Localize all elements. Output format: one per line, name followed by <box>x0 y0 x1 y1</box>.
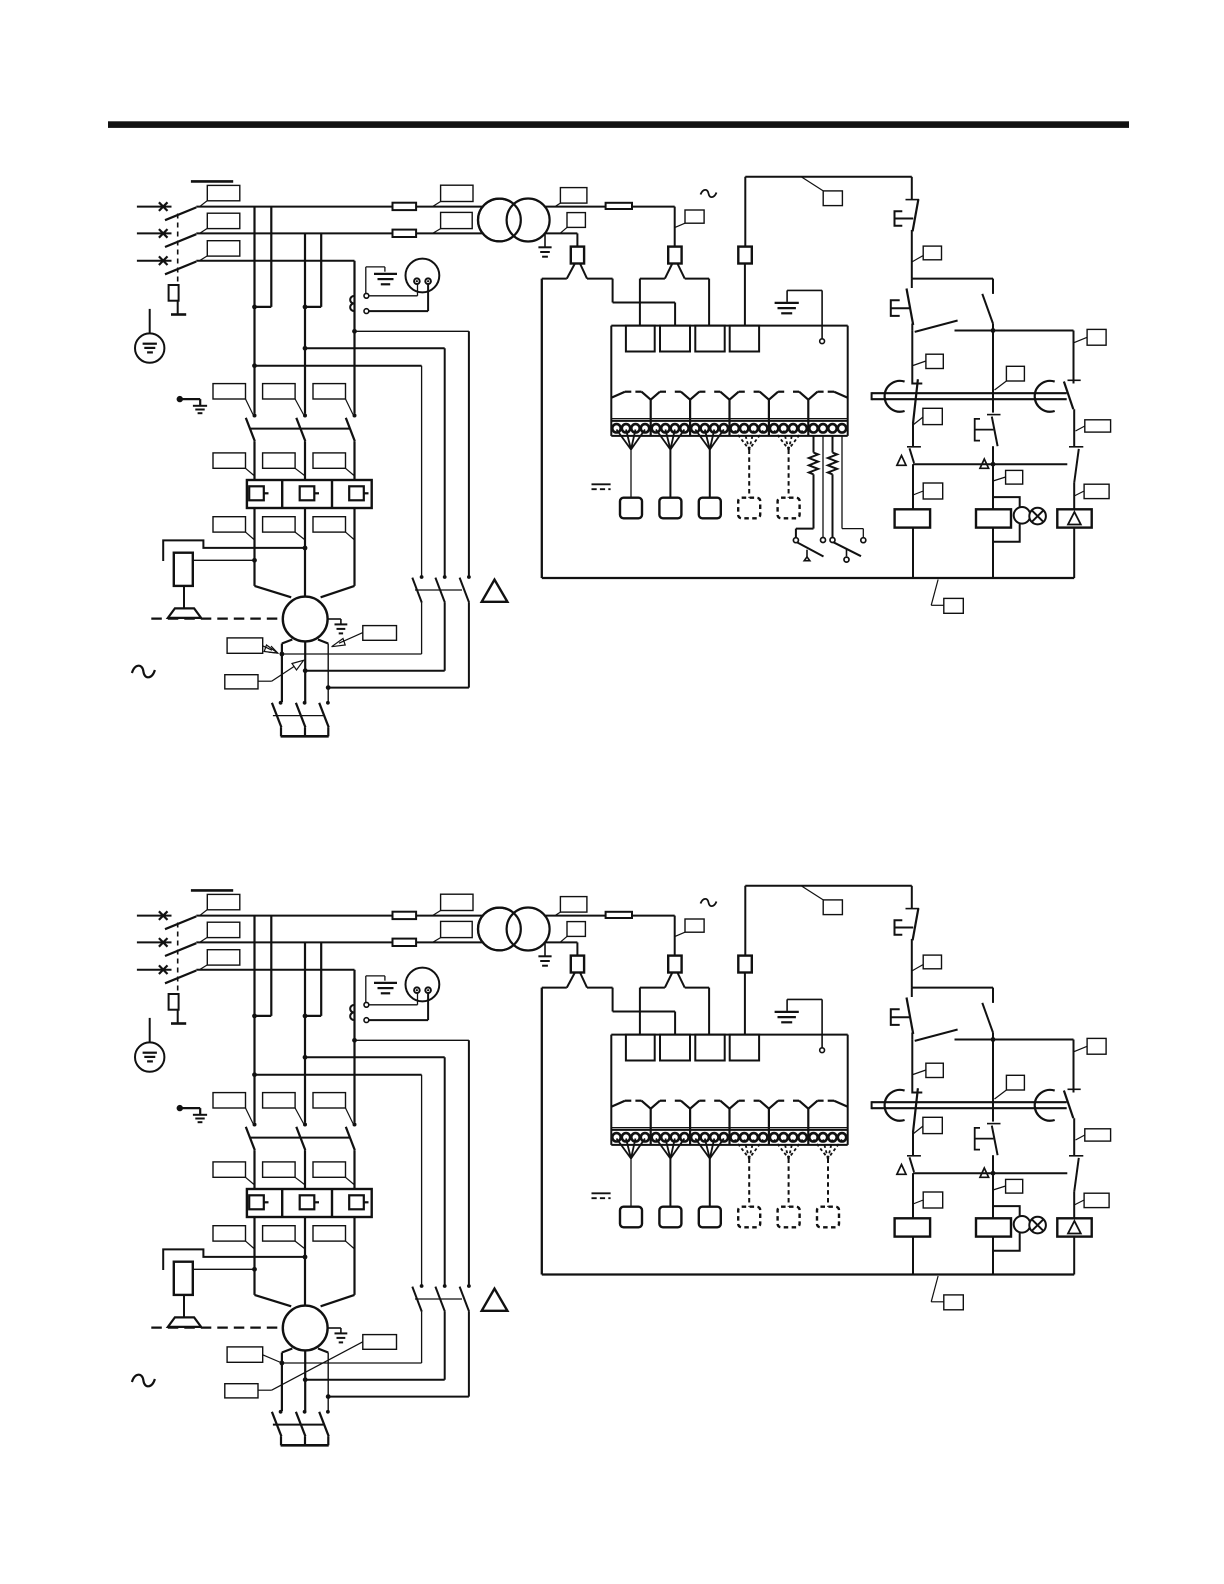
plug box (solid) <box>620 1207 642 1228</box>
wires overload to motor <box>253 508 255 586</box>
mechanical link dashed to motor <box>151 617 282 619</box>
motor terminal collar <box>282 1349 292 1353</box>
transformer earth <box>544 233 546 247</box>
group fan-out wires to plugs <box>617 430 632 450</box>
coil K3 with triangle <box>1057 1218 1091 1236</box>
wire X1 right leg <box>587 987 613 989</box>
coil K3 with triangle <box>1057 509 1091 527</box>
label box left column above linkage <box>926 1063 943 1077</box>
phase C drop wire <box>353 261 355 332</box>
label box on control drop <box>923 955 941 969</box>
dc symbol <box>592 483 611 485</box>
wire CT terminal 1 to plug <box>369 295 418 297</box>
phase C drop wire <box>353 970 355 1041</box>
terminal strip <box>611 1127 847 1129</box>
e-stop contact 2 <box>911 279 913 288</box>
contact before bus 2 <box>907 446 921 448</box>
CT terminals <box>364 1002 369 1007</box>
fuse F1 <box>393 203 417 210</box>
row2 label boxes <box>213 1162 246 1177</box>
wire-harness funnels with dashed tops <box>611 1101 625 1107</box>
label L1 with arrow <box>227 638 263 653</box>
protective earth electrode <box>149 309 151 344</box>
wire X1 left leg to return bus <box>542 987 567 989</box>
overload relay F4 <box>247 1189 372 1217</box>
plug pins <box>414 278 420 284</box>
row3 label boxes <box>213 1226 246 1241</box>
ac tilde symbol <box>701 190 717 197</box>
label box coil K1 <box>923 1192 943 1208</box>
resistor R2 <box>832 436 834 453</box>
cable connector X2 <box>668 247 681 264</box>
label box right of transformer <box>560 188 587 204</box>
PE junction dot with earth <box>177 1105 183 1111</box>
contactor main contacts <box>253 1123 257 1127</box>
plug box (dashed) <box>738 498 760 519</box>
three-phase input lines L1 L2 L3 <box>137 206 172 208</box>
motor earth <box>328 1327 341 1329</box>
wire CT terminal 2 to plug <box>369 1019 428 1021</box>
ac tilde symbol left <box>132 666 155 678</box>
terminal screws <box>612 1133 620 1141</box>
coil K1 <box>912 464 914 509</box>
label box right lower <box>1084 1193 1109 1207</box>
label box right mid <box>1085 1129 1111 1141</box>
compartment squares under box top <box>626 326 655 352</box>
wires to overload relay <box>253 1150 255 1189</box>
label box right top <box>1087 329 1106 345</box>
bar above label box <box>191 889 233 892</box>
wire 2 thin <box>822 436 824 538</box>
wire F2 to transformer <box>416 941 483 943</box>
motor terminal collar <box>282 640 292 644</box>
fuse F1 <box>393 912 417 919</box>
mid column contact below linkage <box>987 414 1001 416</box>
right column contact through linkage <box>1068 1088 1081 1090</box>
control bus 2 <box>913 1172 1067 1174</box>
transformer T1 <box>478 908 521 951</box>
cable connector X1 <box>571 247 584 264</box>
warning triangle small 1 <box>897 456 906 466</box>
label box on top wire <box>801 886 823 900</box>
lamp branch loop <box>993 1206 1020 1251</box>
isolator bottom bar <box>281 735 329 738</box>
e-stop contact 1 <box>906 908 920 910</box>
warning triangle small 1 <box>897 1165 906 1175</box>
contact before bus 2 <box>907 1155 921 1157</box>
wire X1 right leg <box>587 278 613 280</box>
motor earth <box>328 618 341 620</box>
earth for measuring circuit <box>365 267 367 293</box>
switch S2 contact <box>830 538 835 543</box>
knife switch blade <box>911 1033 913 1040</box>
measuring plug <box>406 968 440 1002</box>
motor terminal links to bypass <box>280 1361 285 1366</box>
phase risers to contactor <box>253 1016 255 1123</box>
label box above fuse F2 <box>441 921 473 937</box>
label box above fuse F1 <box>441 894 473 910</box>
group6 dashed fan-out to dashed plug <box>814 1140 829 1159</box>
striker fuse box on linkage <box>169 285 179 301</box>
pressure switch foot <box>183 586 185 608</box>
cable connector X1 <box>571 956 584 973</box>
plug box (solid) <box>659 498 681 519</box>
label box below bus <box>931 580 938 606</box>
pressure switch bracket <box>163 1249 305 1270</box>
pressure switch body <box>174 553 193 586</box>
knife switch blade <box>911 324 913 331</box>
top wire to control circuit <box>745 885 912 887</box>
warning triangle <box>482 580 508 602</box>
branch wire to middle column <box>912 278 993 280</box>
indicator lamp circle <box>1014 1216 1031 1233</box>
control wire drop <box>911 886 913 909</box>
pressure switch body <box>174 1262 193 1295</box>
warning triangle small 2 <box>980 1168 989 1177</box>
label box above coil K2 <box>1006 470 1023 484</box>
three-phase input lines L1 L2 L3 <box>137 915 172 917</box>
wire X2 left leg <box>640 278 665 280</box>
control bus 2 <box>913 463 1067 465</box>
plug box (solid) <box>659 1207 681 1228</box>
wire X1 left leg to return bus <box>542 278 567 280</box>
phase L1 wire to fuse F1 <box>196 915 392 917</box>
transformer lower secondary wire <box>545 941 578 943</box>
label box near connector X2 <box>685 919 704 932</box>
plug box (solid) <box>699 498 721 519</box>
transformer secondary wire with fuse F3 <box>545 206 606 208</box>
coil K2 <box>976 1218 1011 1236</box>
warning triangle <box>482 1289 508 1311</box>
motor isolator contacts <box>279 701 283 705</box>
middle column stub and contact <box>992 988 994 1003</box>
label L2 with arrow <box>363 626 397 641</box>
label L3 leader <box>225 1384 258 1398</box>
cable connector X3 <box>744 886 746 956</box>
warning triangle small 2 <box>980 459 989 468</box>
indicator lamp crossed <box>1029 508 1046 525</box>
group fan-out wires to plugs <box>617 1139 632 1159</box>
lamp branch loop <box>993 497 1020 542</box>
label box below linkage <box>923 1117 942 1133</box>
label L1 plain leader <box>227 1347 263 1362</box>
linkage arc right <box>1035 1090 1055 1121</box>
label box on control drop <box>923 246 941 260</box>
phase A drop wires <box>253 916 255 1016</box>
row2 label boxes <box>213 453 246 468</box>
right column wire <box>1073 331 1075 384</box>
fuse-marks X on input lines <box>159 202 168 211</box>
phase L2 wire to fuse F2 <box>196 232 392 234</box>
header rule <box>108 121 1129 128</box>
label box mid column <box>1006 366 1024 381</box>
CT terminals <box>364 293 369 298</box>
e-stop contact 2 <box>911 988 913 997</box>
transformer earth <box>544 942 546 956</box>
indicator lamp circle <box>1014 507 1031 524</box>
transformer T1 <box>478 199 521 242</box>
label L2 long leader <box>363 1335 397 1350</box>
wire-harness funnels with dashed tops <box>611 392 625 398</box>
label box mid column <box>1006 1075 1024 1090</box>
switch S1 contact <box>793 538 798 543</box>
phase L3 wire <box>196 969 354 971</box>
left column contact through linkage <box>912 383 922 385</box>
earth terminal inside enclosure <box>821 999 823 1047</box>
plug pins <box>414 987 420 993</box>
wire X2 right leg <box>685 987 709 989</box>
plug box (solid) <box>620 498 642 519</box>
disconnect switch Q1 blades <box>165 916 196 929</box>
plug box (dashed) <box>738 1207 760 1228</box>
wires overload to motor <box>253 1217 255 1295</box>
wire F1 to transformer <box>416 206 483 208</box>
transformer secondary wire with fuse F3 <box>545 915 606 917</box>
cable connector X3 <box>744 177 746 247</box>
pressure switch foot <box>183 1295 185 1317</box>
label box right mid <box>1085 420 1111 432</box>
wires to overload relay <box>253 441 255 480</box>
ac tilde symbol left <box>132 1375 155 1387</box>
label box on secondary drop <box>567 922 585 937</box>
mechanical linkage double line <box>872 1101 1067 1103</box>
terminal box outline <box>611 1034 847 1036</box>
terminal box outline <box>611 325 847 327</box>
label box above fuse F2 <box>441 212 473 228</box>
terminal strip <box>611 418 847 420</box>
bypass riser wires <box>468 1040 470 1284</box>
label boxes for disconnect poles <box>207 894 240 909</box>
return bus <box>541 988 543 1275</box>
compartment squares under box top <box>626 1035 655 1061</box>
phase L1 wire to fuse F1 <box>196 206 392 208</box>
transformer lower secondary wire <box>545 232 578 234</box>
linkage arc left <box>885 381 905 412</box>
wire CT terminal 2 to plug <box>369 310 428 312</box>
disconnect mechanical linkage (dashed) <box>177 214 179 285</box>
protective earth electrode <box>149 1018 151 1053</box>
terminal screws <box>612 424 620 432</box>
label box below bus <box>931 1276 938 1302</box>
bar above label box <box>191 180 233 183</box>
control bus 1 <box>955 1039 1074 1041</box>
mechanical linkage double line <box>872 392 1067 394</box>
isolator bottom bar <box>281 1444 329 1447</box>
earth terminal inside enclosure <box>821 290 823 338</box>
bypass switch contacts <box>420 1284 424 1288</box>
linkage arc right <box>1035 381 1055 412</box>
phase A drop wires <box>253 207 255 307</box>
label box on top wire <box>801 177 823 191</box>
tap junctions to bypass switch <box>352 329 357 334</box>
label box right lower <box>1084 484 1109 498</box>
return bus <box>541 279 543 578</box>
dc symbol <box>592 1192 611 1194</box>
phase risers to contactor <box>253 307 255 414</box>
indicator lamp crossed <box>1029 1217 1046 1234</box>
label boxes for disconnect poles <box>207 185 240 200</box>
top wire to control circuit <box>745 176 912 178</box>
bypass switch contacts <box>420 575 424 579</box>
PE junction dot with earth <box>177 396 183 402</box>
label box above fuse F1 <box>441 185 473 201</box>
earth for measuring circuit <box>365 976 367 1002</box>
fuse F3 <box>606 912 632 918</box>
label box on secondary drop <box>567 213 585 228</box>
label L3 with arrow <box>225 675 258 689</box>
pushbutton actuator mid <box>975 419 994 441</box>
coil K1 <box>912 1173 914 1218</box>
wire F2 to transformer <box>416 232 483 234</box>
mid column contact below linkage <box>987 1123 1001 1125</box>
motor terminal links to bypass <box>280 652 285 657</box>
wire 4 thin <box>841 436 843 529</box>
striker fuse box on linkage <box>169 994 179 1010</box>
motor M1 <box>283 1306 328 1351</box>
motor M1 <box>283 597 328 642</box>
middle column stub and contact <box>992 279 994 294</box>
fuse F3 <box>606 203 632 209</box>
control wire drop <box>911 177 913 200</box>
measuring plug <box>406 259 440 293</box>
contactor K row1 label boxes <box>213 384 246 399</box>
label box coil K1 <box>923 483 943 499</box>
wire X2 left leg <box>640 987 665 989</box>
plug box (dashed) <box>778 1207 800 1228</box>
current transformer on phase C <box>350 1005 354 1012</box>
label box below linkage <box>923 408 942 424</box>
label box left column above linkage <box>926 354 943 368</box>
plug box (dashed) <box>778 498 800 519</box>
right column contact through linkage <box>1068 379 1081 381</box>
label box near connector X2 <box>685 210 704 223</box>
disconnect mechanical linkage (dashed) <box>177 923 179 994</box>
control bus 1 <box>955 330 1074 332</box>
group6 wires with resistors and limit switches <box>813 436 815 453</box>
pushbutton actuator mid <box>975 1128 994 1150</box>
disconnect switch Q1 blades <box>165 207 196 220</box>
e-stop contact 1 <box>906 199 920 201</box>
wire left column <box>911 1040 913 1094</box>
contactor K row1 label boxes <box>213 1093 246 1108</box>
label box right of transformer <box>560 897 587 913</box>
fuse F2 <box>393 230 417 237</box>
mechanical link dashed to motor <box>151 1326 282 1328</box>
wire F1 to transformer <box>416 915 483 917</box>
right column wire <box>1073 1040 1075 1093</box>
motor wires into terminals <box>255 586 292 597</box>
wire CT terminal 1 to plug <box>369 1004 418 1006</box>
label box above coil K2 <box>1006 1179 1023 1193</box>
tap junctions to bypass switch <box>352 1038 357 1043</box>
plug box (solid) <box>699 1207 721 1228</box>
phase B drop wires <box>304 942 306 1016</box>
branch wire to middle column <box>912 987 993 989</box>
motor isolator contacts <box>279 1410 283 1414</box>
motor wires into terminals <box>255 1295 292 1306</box>
coil K2 <box>976 509 1011 527</box>
right contact 2 <box>1069 1155 1083 1157</box>
contactor main contacts <box>253 414 257 418</box>
label box right top <box>1087 1038 1106 1054</box>
phase L2 wire to fuse F2 <box>196 941 392 943</box>
wire X2 right leg <box>685 278 709 280</box>
fuse-marks X on input lines <box>159 911 168 920</box>
bypass riser wires <box>468 331 470 575</box>
overload relay F4 <box>247 480 372 508</box>
linkage arc left <box>885 1090 905 1121</box>
pressure switch bracket <box>163 540 305 561</box>
right contact 2 <box>1069 446 1083 448</box>
phase L3 wire <box>196 260 354 262</box>
left column contact through linkage <box>912 1092 922 1094</box>
wire left column <box>911 331 913 385</box>
cable connector X2 <box>668 956 681 973</box>
fuse F2 <box>393 939 417 946</box>
phase B drop wires <box>304 233 306 307</box>
ac tilde symbol <box>701 899 717 906</box>
current transformer on phase C <box>350 296 354 303</box>
resistor R1 <box>809 453 818 475</box>
row3 label boxes <box>213 517 246 532</box>
